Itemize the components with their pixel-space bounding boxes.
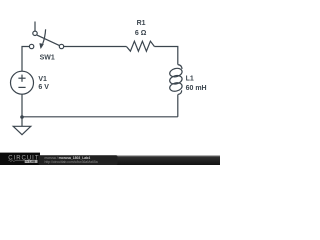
wire from SW1 pole to R1 (64, 46, 127, 48)
svg-text:SW1: SW1 (40, 55, 55, 62)
resistor R1 (126, 41, 154, 51)
ground (13, 126, 31, 134)
wire from SW1 left throw to V1 top (22, 47, 29, 72)
wire R1 to top-right corner (154, 47, 177, 65)
bottom wire rail (22, 116, 178, 118)
inductor L1 (169, 65, 183, 95)
wire L1 bottom to bottom rail (177, 95, 179, 117)
svg-text:6 Ω: 6 Ω (135, 30, 147, 37)
watermark bar (0, 155, 220, 165)
switch SW1 (29, 29, 63, 48)
svg-text:LAB: LAB (29, 160, 35, 164)
voltage source V1 (11, 71, 34, 94)
svg-text:L1: L1 (186, 75, 194, 82)
svg-text:V1: V1 (38, 76, 47, 83)
svg-text:http://circuitlab.com/c/bw36aM: http://circuitlab.com/c/bw36aMa65a (45, 160, 98, 164)
junction at ground node (20, 115, 24, 119)
svg-text:60 mH: 60 mH (186, 85, 207, 92)
svg-text:R1: R1 (137, 20, 146, 27)
svg-text:6 V: 6 V (38, 84, 49, 91)
wire V1 bottom to ground node (21, 94, 23, 126)
wire stub open terminal of SW1 (34, 22, 36, 32)
